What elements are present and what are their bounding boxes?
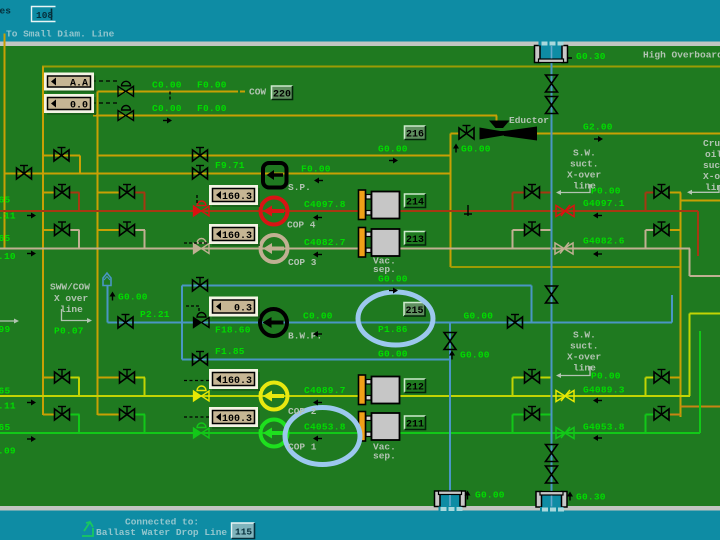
valve: BWP discharge control valve [194,313,210,328]
wire: COP1 branch riser x144.3 [143,415,145,434]
wire: suction header y155.5 seg B [98,155,452,157]
svg-text:100.3: 100.3 [222,414,252,425]
svg-text:65: 65 [0,195,10,206]
svg-text:213: 213 [406,235,424,246]
svg-text:C4053.8: C4053.8 [304,422,346,433]
valve: COP4 SW-crossover valve [525,185,540,199]
wire: eductor suction vertical x450.5 [450,134,452,268]
svg-text:line: line [573,181,596,192]
wire: vertical manifold x97.5 [97,91,99,415]
svg-text:G0.00: G0.00 [464,311,494,322]
svg-text:C0.00: C0.00 [303,311,333,322]
wire: COP4 red right drop x698 [697,211,699,256]
svg-text:G4097.1: G4097.1 [583,198,625,209]
valve: COP4 crossover inline valve [556,205,574,217]
wire: COP3 branch riser x144.3 [143,230,145,249]
svg-text:65: 65 [0,422,10,433]
wire: eductor funnel drop x496 [496,116,498,125]
svg-text:line: line [705,182,720,193]
wire: COP1 sw-crossover riser x512.5 [512,415,514,434]
eductor [480,121,538,141]
svg-text:G0.30: G0.30 [576,492,606,503]
valve: COP1 branch valve b [120,407,135,421]
valve: COP2 branch valve b [120,370,135,384]
svg-text:C0.00: C0.00 [152,80,182,91]
wire: COP1 main y433 [0,432,700,434]
wire: olive header line y66 [42,66,720,68]
svg-text:G0.00: G0.00 [378,274,408,285]
svg-text:C0.00: C0.00 [152,103,182,114]
wire: COP2 co-crossover seg [646,377,655,379]
label box 214 [405,194,426,209]
svg-text:0.3: 0.3 [234,303,252,314]
valve: COP1 SW-crossover valve [525,407,540,421]
valve: COP4 branch valve a [55,185,70,199]
wire: COP2 right riser up x689.5 [689,314,691,397]
vessel: vac separator 213 [359,228,400,258]
footer link icon [82,522,93,536]
valve: COP3 branch valve b [120,222,135,236]
svg-text:line: line [573,363,596,374]
header input box 108 [32,7,56,22]
wire: sea suction vertical x450 [449,323,451,493]
valve: suction header y173 valve b [193,166,208,180]
valve: P2.21 inlet valve [118,315,133,329]
valve: COP3 crossover inline valve [555,243,573,255]
svg-text:160.3: 160.3 [222,376,252,387]
valve: COP1 CO-crossover valve [654,407,669,421]
valve: COP2 discharge control valve [194,386,210,401]
svg-text:COP 2: COP 2 [288,406,317,417]
pump COP4 [261,198,288,225]
wire: COP3 co-crossover riser x645.5 [645,230,647,249]
svg-text:215: 215 [405,306,423,317]
label box 212 [405,379,426,394]
value box 160.3 COP2 [209,369,260,391]
label box 213 [405,232,426,247]
highlight ellipse around 215/P1.86 [358,292,433,345]
wire: COP3 co-crossover seg [646,229,655,231]
wire: COP4 sw-crossover seg [513,192,525,194]
valve: COP1 discharge control valve [194,423,210,438]
wire: BWP recirc bottom y359.5 [182,359,450,361]
svg-text:Crude: Crude [703,138,720,149]
overboard discharge fitting [535,41,568,63]
wire: vertical manifold x43 [42,67,44,416]
svg-text:A.A: A.A [70,78,88,89]
svg-text:F9.71: F9.71 [215,160,245,171]
valve: COP3 CO-crossover valve [654,222,669,236]
svg-text:X-over: X-over [567,170,602,181]
wire: COP1 co-crossover seg [646,414,655,416]
valve: eductor drive control valve V2 [118,106,134,121]
wire: SW crossover vertical x551.5 [551,46,553,492]
svg-text:S.W.: S.W. [573,330,596,341]
pump BWP [260,309,287,336]
wire: COP2 right exit y313.5 [690,313,720,315]
svg-text:To Small Diam. Line: To Small Diam. Line [6,29,115,40]
label box 316 [405,126,426,141]
svg-text:F0.00: F0.00 [197,80,227,91]
svg-text:0.0: 0.0 [70,100,88,111]
svg-text:G0.00: G0.00 [461,144,491,155]
svg-text:es: es [0,6,11,17]
wire: COP4 red main y211 [0,210,698,212]
wire: eductor inlet stub [451,133,460,135]
svg-text:.09: .09 [0,446,16,457]
valve: sea suction valve x450 [444,333,456,350]
svg-text:C4097.8: C4097.8 [304,199,346,210]
svg-text:P0.07: P0.07 [54,326,84,337]
valve: COP1 branch valve a [55,407,70,421]
pump S.P. stripping pump icon [263,163,287,188]
valve: COP3 branch valve a [55,222,70,236]
wire: COP1 right riser up x700 [699,331,701,433]
svg-text:F0.00: F0.00 [197,103,227,114]
svg-text:COP 4: COP 4 [287,220,316,231]
wire: COP4 branch riser x79 [78,193,80,212]
svg-text:160.3: 160.3 [222,231,252,242]
wire: COP3 right jog down [689,249,691,277]
bottom teal band [0,511,720,540]
pump COP1 [261,420,288,447]
svg-text:S.P.: S.P. [288,182,311,193]
svg-text:.10: .10 [0,251,16,262]
svg-text:115: 115 [235,527,252,538]
wire: COP3 sw-crossover riser x512.5 [512,230,514,249]
wire: left vertical manifold x4.5 [4,34,6,250]
svg-text:F1.85: F1.85 [215,346,245,357]
wire: COP2 branch riser x144.3 [143,378,145,397]
svg-text:F18.60: F18.60 [215,325,251,336]
svg-text:line: line [60,304,83,315]
svg-text:suct: suct [703,160,720,171]
svg-text:COW: COW [249,87,266,98]
valve: BWP recirc top valve [193,278,208,292]
wire: BWP suction main y322.5 [108,322,673,324]
valve: BWP suction inline valve [508,315,523,329]
svg-text:G0.00: G0.00 [460,350,490,361]
wire: COP2 branch seg b [98,377,121,379]
valve: suction header y173 valve a [17,166,32,180]
pump COP2 [261,383,288,410]
svg-text:X over: X over [54,293,89,304]
svg-text:.11: .11 [0,401,16,412]
wire: COP4 co-crossover seg [646,192,655,194]
wire: COP4 branch seg a [43,192,55,194]
svg-text:G0.00: G0.00 [118,292,148,303]
bracket crude [692,185,719,192]
wire: suction header y155.5 seg A [43,155,80,157]
svg-text:SWW/COW: SWW/COW [50,282,90,293]
wire: BWP recirc right drop x531.5 [531,286,533,323]
wire: BWP flask stem x107.5 [107,285,109,323]
wire: blue stub inside sea chest 1 [449,495,451,506]
dashed stem box2 to V2 [92,102,117,104]
valve: eductor inlet valve [459,126,474,140]
value box 0.3 BWP [209,297,260,319]
wire: COP3 sw-crossover seg [513,229,525,231]
vessel: vac separator 212 [359,375,400,405]
label box 211 [405,416,426,431]
wire: BWP recirc left vertical x182 [181,286,183,360]
wire: COP3 tan main y248.5 [0,248,690,250]
dashed stem to COP1 control valve [184,416,209,418]
svg-text:Ballast Water Drop Line: Ballast Water Drop Line [96,527,227,538]
wire: crude-oil crossover vertical x680.5 [680,193,682,418]
valve: overboard valve 2 [546,97,558,114]
wire: BWP recirc top y285.5 [182,285,532,287]
valve: suction header y155 valve b [193,148,208,162]
svg-text:C4089.7: C4089.7 [304,385,346,396]
vessel: vac separator 211 [359,412,400,442]
dashed stem to COP4 control valve [196,195,198,203]
wire: COP2 branch riser x79 [78,378,80,397]
highlight ellipse around C4053.8/COP1 [285,408,360,465]
svg-text:65: 65 [0,386,10,397]
valve: COP2 CO-crossover valve [654,370,669,384]
svg-text:G4089.3: G4089.3 [583,385,625,396]
wire: COW tick before label [240,90,245,92]
label box 215 [404,303,425,318]
svg-text:99: 99 [0,324,10,335]
svg-text:216: 216 [406,130,424,141]
wire: blue stub inside sea chest 2 [551,496,553,507]
svg-text:Eductor: Eductor [509,115,549,126]
valve: COP4 CO-crossover valve [654,185,669,199]
svg-text:oil: oil [705,149,720,160]
svg-text:Connected to:: Connected to: [125,517,199,528]
svg-text:COP 3: COP 3 [288,257,317,268]
svg-text:212: 212 [406,383,424,394]
flask symbol (tank vent) [103,273,111,286]
valve: sea chest 2 valve 2 [546,466,558,483]
valve: COW supply control valve V1 [118,81,134,96]
svg-text:.11: .11 [0,211,16,222]
dashed stem to BWP control valve [186,306,199,313]
svg-text:F0.00: F0.00 [301,164,331,175]
svg-text:G0.30: G0.30 [576,51,606,62]
svg-text:211: 211 [406,420,424,431]
value box 100.3 COP1 [209,407,260,429]
dashed stem to COP3 control valve [184,242,209,244]
valve: overboard valve 1 [546,75,558,92]
value box 0.0 (lower) [44,94,96,115]
bracket SW lower [560,366,590,376]
wire: eductor outlet line y133.5 [536,133,720,135]
wire: COP4 co-crossover riser x645.5 [645,193,647,212]
valve: COP4 branch valve b [120,185,135,199]
svg-text:COP 1: COP 1 [288,442,317,453]
gray entry arrow blue line [0,320,14,322]
wire: COP1 branch seg b [98,414,121,416]
valve: BWP recirc bottom valve [193,352,208,366]
wire: COP4 sw-crossover riser x512.5 [512,193,514,212]
svg-text:G0.00: G0.00 [475,490,505,501]
tick before G0.30 [568,57,572,59]
svg-text:214: 214 [406,198,424,209]
bottom silver separator [0,506,720,511]
wire: olive crossover y267 [451,266,681,268]
wire: COP1 co-crossover riser x645.5 [645,415,647,434]
wire: COP1 branch seg a [43,414,55,416]
label box 220 [272,86,293,101]
bracket SWW/COW [62,309,89,321]
wire: COP1 branch riser x79 [78,415,80,434]
sea chest 2 [536,492,567,512]
svg-text:G2.00: G2.00 [583,122,613,133]
wire: COP3 branch seg b [98,229,121,231]
svg-text:X-ov: X-ov [703,171,720,182]
dashed stem box1 to V1 [92,80,118,82]
svg-text:sep.: sep. [373,451,396,462]
footer box 115 [232,523,255,539]
svg-text:G4082.6: G4082.6 [583,236,625,247]
wire: COP4 branch seg b [98,192,121,194]
svg-text:sep.: sep. [373,264,396,275]
arrows [314,178,323,184]
svg-text:G4053.8: G4053.8 [583,422,625,433]
vessel: vac separator 214 [359,190,400,220]
valve: COP2 SW-crossover valve [525,370,540,384]
valve: COP3 discharge control valve [194,239,210,254]
wire: COP1 sw-crossover seg [513,414,525,416]
valve: SW crossover mid valve [546,286,558,303]
svg-text:G0.00: G0.00 [378,349,408,360]
wire: COP2 main y396 [0,395,690,397]
svg-text:G0.00: G0.00 [378,144,408,155]
svg-text:suct.: suct. [570,341,599,352]
wire: COP2 sw-crossover riser x512.5 [512,378,514,397]
valve: COP3 SW-crossover valve [525,222,540,236]
wire: suction header y173.5 [5,173,452,175]
wire: crude-oil tap y200.5 [681,200,720,202]
svg-text:65: 65 [0,233,10,244]
dashed stem to COP2 control valve [184,380,209,382]
svg-text:C4082.7: C4082.7 [304,237,346,248]
wire: blue right riser x672 [671,295,673,323]
svg-text:X-over: X-over [567,352,602,363]
value box 160.3 COP4 [209,185,260,207]
wire: COP3 branch seg a [43,229,55,231]
svg-text:S.W.: S.W. [573,148,596,159]
wire: COP3 right exit y276 [690,275,720,277]
pump COP3 [261,235,288,262]
valve: sea chest 2 valve 1 [546,445,558,462]
valve: COP1 crossover inline valve [556,427,574,439]
wire: COW valve line y91 [98,90,239,92]
svg-text:220: 220 [273,90,291,101]
wire: crude-oil tap y406.5 [681,406,720,408]
wire: COP2 co-crossover riser x645.5 [645,378,647,397]
junction tick red line [467,205,469,216]
value box A.A (upper) [44,73,96,93]
wire: blue stub inside overboard [551,46,553,59]
svg-text:P1.86: P1.86 [378,324,408,335]
wire: COP3 branch riser x79 [78,230,80,249]
svg-text:suct.: suct. [570,159,599,170]
wire: COP2 sw-crossover seg [513,377,525,379]
valve: COP2 branch valve a [55,370,70,384]
wire: COP4 branch riser x144.3 [143,193,145,212]
wire: seg A drop x80 [79,156,81,174]
top teal band [0,0,720,42]
value box 160.3 COP3 [209,224,260,246]
valve: suction header y155 valve a [54,148,69,162]
sea chest 1 [435,491,466,511]
bracket SW upper [560,184,590,193]
svg-text:160.3: 160.3 [222,192,252,203]
wire: eductor drive line y115.5 [93,115,497,117]
top silver separator [0,42,720,47]
valve: COP4 discharge control valve [194,201,210,216]
svg-text:High Overboard: High Overboard [643,50,720,61]
dashed tick between C0.00 rows [169,92,171,102]
svg-text:P2.21: P2.21 [140,309,170,320]
valve: COP2 crossover inline valve [556,390,574,402]
wire: COP2 branch seg a [43,377,55,379]
